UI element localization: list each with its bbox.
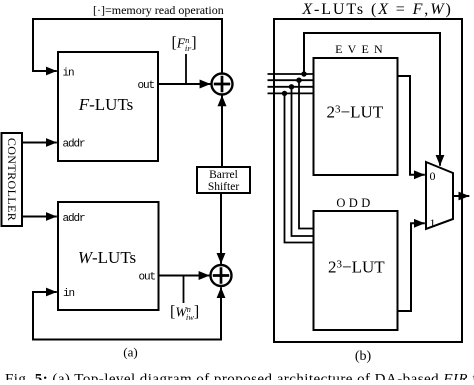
svg-text:Barrel: Barrel	[209, 169, 238, 181]
svg-text:in: in	[63, 68, 75, 80]
svg-text:[Wniw]: [Wniw]	[170, 304, 199, 323]
svg-text:addr: addr	[63, 139, 86, 151]
svg-text:X-LUTs (X = F,W): X-LUTs (X = F,W)	[301, 1, 452, 18]
svg-text:EVEN: EVEN	[335, 42, 388, 56]
svg-text:23−LUT: 23−LUT	[327, 103, 384, 122]
svg-text:out: out	[138, 272, 155, 284]
svg-text:F-LUTs: F-LUTs	[78, 95, 134, 114]
svg-text:ODD: ODD	[336, 196, 373, 210]
svg-text:Fig. 5: (a) Top-level diagram: Fig. 5: (a) Top-level diagram of propose…	[5, 372, 474, 381]
svg-text:0: 0	[430, 169, 436, 183]
svg-text:(b): (b)	[355, 349, 372, 364]
svg-text:W-LUTs: W-LUTs	[78, 248, 136, 267]
svg-text:CONTROLLER: CONTROLLER	[5, 138, 19, 221]
svg-text:(a): (a)	[123, 345, 137, 360]
svg-text:[·]=memory read operation: [·]=memory read operation	[93, 3, 224, 17]
svg-text:addr: addr	[63, 213, 86, 225]
svg-text:23−LUT: 23−LUT	[328, 258, 385, 277]
svg-text:in: in	[63, 288, 75, 300]
svg-text:Shifter: Shifter	[208, 181, 239, 193]
svg-text:1: 1	[430, 216, 436, 230]
svg-text:out: out	[137, 80, 154, 92]
svg-text:[FniF]: [FniF]	[172, 35, 197, 54]
